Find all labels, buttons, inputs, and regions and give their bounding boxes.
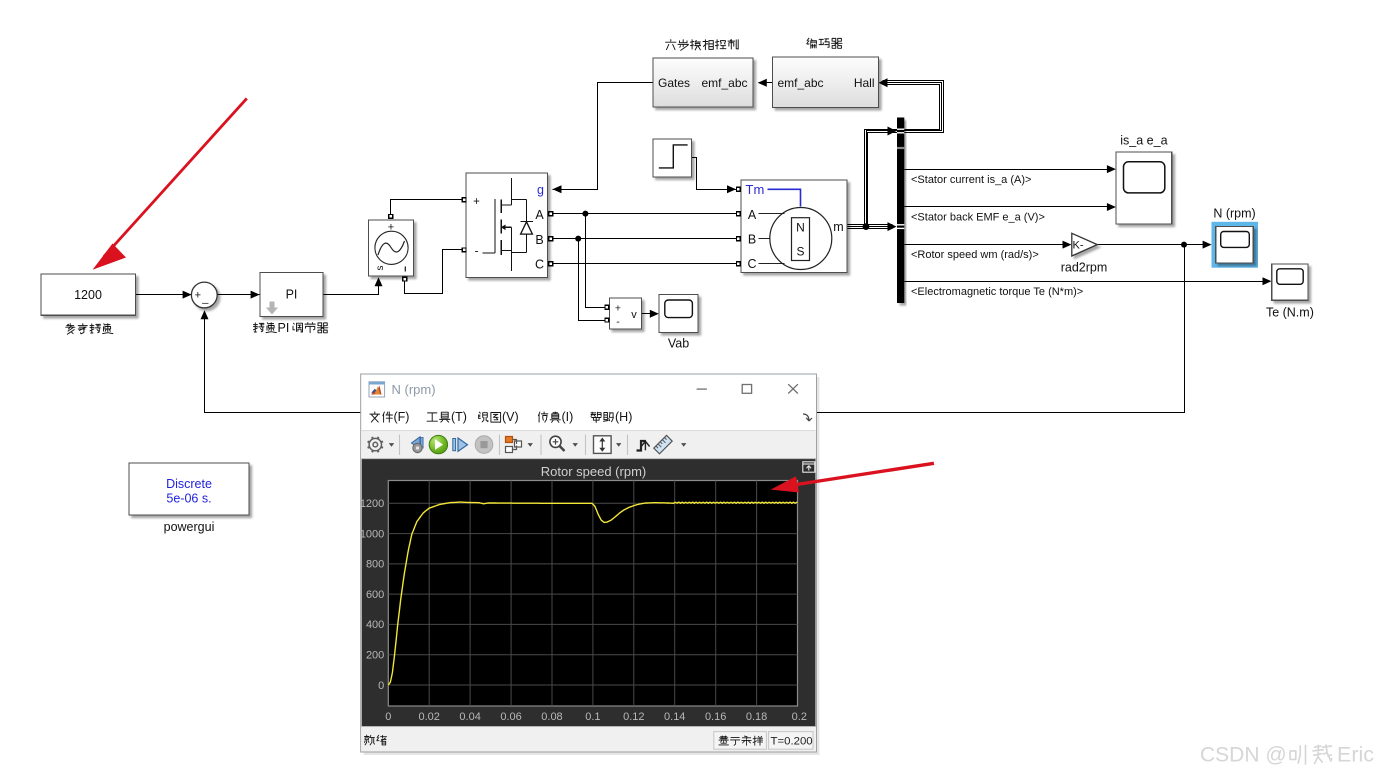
subsystem 六步换相控制 bbox=[653, 58, 753, 107]
bus wire motor m to bus selector bbox=[847, 228, 893, 230]
svg-text:0.02: 0.02 bbox=[419, 711, 440, 723]
svg-text:600: 600 bbox=[366, 589, 384, 601]
svg-text:<Stator back EMF e_a (V)>: <Stator back EMF e_a (V)> bbox=[911, 212, 1045, 224]
wire stator current to scope bbox=[905, 169, 1113, 171]
svg-text:<Rotor speed wm (rad/s)>: <Rotor speed wm (rad/s)> bbox=[911, 249, 1039, 261]
svg-text:+: + bbox=[615, 303, 621, 315]
svg-text:<Stator current is_a (A)>: <Stator current is_a (A)> bbox=[911, 174, 1031, 186]
status bar bbox=[361, 727, 816, 752]
motor circle bbox=[770, 208, 832, 270]
svg-text:A: A bbox=[748, 208, 757, 222]
converter - port bbox=[462, 248, 466, 252]
svg-text:g: g bbox=[537, 183, 544, 197]
wire stator back EMF to scope bbox=[905, 206, 1113, 208]
wire gain to N scope bbox=[1098, 244, 1209, 246]
svg-text:Vab: Vab bbox=[668, 337, 689, 351]
menu bar bbox=[370, 410, 410, 424]
junction dot A bbox=[582, 211, 588, 217]
svg-text:PI: PI bbox=[286, 287, 298, 301]
toolbar step-back icon bbox=[412, 437, 421, 449]
toolbar gear icon bbox=[369, 438, 381, 450]
svg-text:<Electromagnetic torque Te (N*: <Electromagnetic torque Te (N*m)> bbox=[911, 286, 1083, 298]
svg-text:0: 0 bbox=[385, 711, 391, 723]
svg-text:powergui: powergui bbox=[164, 520, 215, 534]
wire phase C bbox=[554, 263, 737, 265]
svg-text:1200: 1200 bbox=[74, 288, 102, 302]
toolbar trigger icon bbox=[637, 441, 647, 451]
wire feedback rotor-speed to sum bbox=[205, 245, 1185, 413]
toolbar autoscale icon bbox=[594, 436, 612, 454]
minimize button bbox=[697, 388, 707, 390]
wire converter- to source- bbox=[405, 250, 462, 294]
toolbar stop icon bbox=[475, 436, 493, 454]
svg-text:emf_abc: emf_abc bbox=[701, 76, 747, 90]
svg-text:rad2rpm: rad2rpm bbox=[1061, 261, 1108, 275]
label 六步换相控制 bbox=[666, 40, 739, 51]
constant block 1200 bbox=[41, 274, 136, 315]
svg-text:PI: PI bbox=[278, 321, 290, 335]
PI controller block bbox=[260, 273, 323, 317]
watermark CSDN bbox=[1200, 743, 1374, 767]
toolbar step-forward icon bbox=[453, 439, 456, 451]
svg-text:800: 800 bbox=[366, 559, 384, 571]
plot grid bbox=[388, 481, 797, 707]
junction dot m bbox=[863, 223, 870, 230]
wire step to Tm bbox=[692, 158, 737, 190]
svg-text:emf_abc: emf_abc bbox=[778, 76, 824, 90]
source top port bbox=[389, 215, 393, 219]
svg-text:1000: 1000 bbox=[360, 528, 384, 540]
svg-text:N (rpm): N (rpm) bbox=[392, 382, 436, 397]
svg-text:0.18: 0.18 bbox=[746, 711, 767, 723]
motor stub A bbox=[759, 213, 785, 215]
wire phase A bbox=[554, 213, 737, 215]
matlab icon bbox=[369, 382, 385, 397]
svg-text:s: s bbox=[375, 266, 386, 271]
svg-text:+: + bbox=[473, 196, 480, 208]
powergui block bbox=[129, 463, 249, 515]
svg-text:B: B bbox=[535, 233, 543, 247]
svg-text:(I): (I) bbox=[562, 410, 574, 424]
svg-text:200: 200 bbox=[366, 650, 384, 662]
svg-text:-: - bbox=[475, 246, 479, 258]
wire encoder emf_abc to Gates bbox=[759, 82, 773, 84]
svg-text:0.1: 0.1 bbox=[585, 711, 600, 723]
magnet bbox=[792, 218, 810, 261]
svg-text:v: v bbox=[631, 309, 637, 321]
scope N rpm bbox=[1216, 226, 1254, 263]
scope window N (rpm) bbox=[360, 374, 820, 755]
svg-text:T=0.200: T=0.200 bbox=[771, 735, 813, 747]
toolbar config icon bbox=[506, 437, 522, 453]
plot axes area bbox=[388, 481, 797, 707]
Tm blue wire bbox=[768, 189, 801, 206]
svg-text:Tm: Tm bbox=[746, 182, 765, 197]
svg-text:A: A bbox=[535, 208, 544, 222]
vmeas + port bbox=[605, 305, 609, 309]
svg-text:Hall: Hall bbox=[854, 76, 875, 90]
wire rotor speed to gain bbox=[905, 244, 1069, 246]
wire sum to PI bbox=[218, 294, 261, 296]
svg-text:B: B bbox=[748, 233, 756, 247]
motor B port bbox=[737, 237, 741, 241]
svg-text:0.14: 0.14 bbox=[664, 711, 685, 723]
svg-text:0.2: 0.2 bbox=[792, 711, 807, 723]
bus selector port marks bbox=[897, 129, 904, 228]
junction dot rotor speed bbox=[1181, 242, 1187, 248]
toolbar zoom icon bbox=[550, 436, 561, 447]
svg-text:Gates: Gates bbox=[658, 76, 690, 90]
red arrow 2 bbox=[790, 463, 934, 485]
PI variant badge bbox=[266, 302, 278, 315]
toolbar play icon bbox=[429, 435, 447, 453]
svg-text:0.08: 0.08 bbox=[541, 711, 562, 723]
wire source+ to converter+ bbox=[391, 200, 462, 215]
junction dot B bbox=[575, 236, 581, 242]
close button bbox=[788, 384, 798, 393]
svg-text:(F): (F) bbox=[394, 410, 410, 424]
status 基于采样 bbox=[719, 736, 763, 745]
svg-text:Discrete: Discrete bbox=[166, 477, 212, 491]
sum block bbox=[191, 282, 217, 308]
mosfet + diode icon bbox=[483, 178, 533, 271]
vmeas - port bbox=[605, 318, 609, 322]
svg-text:Rotor speed (rpm): Rotor speed (rpm) bbox=[541, 464, 646, 479]
wire Vmeas to Vab scope bbox=[642, 313, 655, 315]
step block bbox=[653, 139, 692, 177]
svg-text:m: m bbox=[833, 220, 843, 234]
scope plot backdrop bbox=[362, 459, 816, 726]
svg-text:(V): (V) bbox=[502, 410, 519, 424]
motor stub B bbox=[759, 238, 771, 240]
toolbar bbox=[361, 431, 816, 458]
motor Tm port bbox=[737, 187, 741, 191]
toolbar ruler icon bbox=[654, 435, 672, 453]
converter C port bbox=[549, 262, 553, 266]
status 就绪 bbox=[365, 735, 387, 745]
converter B port bbox=[549, 237, 553, 241]
subsystem 编码器 bbox=[773, 57, 879, 108]
scope is_a e_a bbox=[1116, 152, 1172, 224]
svg-text:0.04: 0.04 bbox=[459, 711, 480, 723]
PMSM motor block bbox=[741, 180, 847, 273]
svg-text:N (rpm): N (rpm) bbox=[1213, 207, 1255, 221]
svg-text:(T): (T) bbox=[451, 410, 467, 424]
svg-text:(H): (H) bbox=[615, 410, 632, 424]
svg-text:0.16: 0.16 bbox=[705, 711, 726, 723]
wire torque to Te scope bbox=[905, 281, 1269, 283]
gain rad2rpm bbox=[1072, 233, 1098, 256]
converter universal bridge block bbox=[466, 173, 548, 278]
svg-text:400: 400 bbox=[366, 619, 384, 631]
bus wire branch to bus selector top and Hall bbox=[868, 81, 944, 227]
converter + port bbox=[462, 198, 466, 202]
svg-text:N: N bbox=[796, 221, 805, 235]
wire PI to source s input bbox=[323, 279, 379, 295]
svg-text:0.06: 0.06 bbox=[500, 711, 521, 723]
Vab scope block bbox=[659, 295, 698, 333]
scope Te bbox=[1272, 264, 1308, 300]
svg-text:Te (N.m): Te (N.m) bbox=[1266, 306, 1314, 320]
motor C port bbox=[737, 262, 741, 266]
svg-text:S: S bbox=[796, 245, 804, 259]
N rpm scope selection highlight bbox=[1212, 222, 1259, 268]
svg-text:0.12: 0.12 bbox=[623, 711, 644, 723]
label 转速PI调节器 bbox=[254, 321, 328, 335]
controlled voltage source bbox=[369, 220, 414, 276]
svg-text:+: + bbox=[195, 290, 201, 302]
svg-text:-: - bbox=[616, 316, 620, 328]
svg-text:1200: 1200 bbox=[360, 498, 384, 510]
svg-text:_: _ bbox=[201, 293, 209, 305]
motor A port bbox=[737, 212, 741, 216]
converter A port bbox=[549, 212, 553, 216]
undock icon bbox=[803, 462, 815, 472]
svg-text:Eric: Eric bbox=[1337, 743, 1374, 767]
svg-text:C: C bbox=[535, 258, 544, 272]
sine glyph bbox=[378, 241, 405, 255]
label 参考转速 bbox=[66, 324, 113, 335]
svg-text:5e-06 s.: 5e-06 s. bbox=[166, 492, 211, 506]
label 编码器 bbox=[807, 38, 842, 48]
svg-text:0: 0 bbox=[378, 680, 384, 692]
svg-text:CSDN @: CSDN @ bbox=[1200, 744, 1287, 767]
source bottom port bbox=[403, 277, 407, 281]
rotor speed curve bbox=[388, 502, 797, 685]
svg-text:C: C bbox=[747, 257, 756, 271]
svg-text:K-: K- bbox=[1073, 240, 1084, 252]
voltage measurement block bbox=[610, 298, 642, 329]
wire A junction to Vmeas+ bbox=[586, 214, 605, 308]
wire 1200 to sum bbox=[136, 294, 193, 296]
arrowhead feedback into sum bbox=[201, 310, 209, 319]
dock arrow bbox=[803, 414, 812, 421]
red arrow 1 bbox=[104, 98, 247, 256]
bus selector bar bbox=[897, 118, 904, 304]
wire B junction to Vmeas- bbox=[579, 239, 605, 321]
wire phase B bbox=[554, 238, 737, 240]
motor stub C bbox=[759, 263, 785, 265]
svg-text:is_a e_a: is_a e_a bbox=[1120, 134, 1167, 148]
wire Gates to converter g bbox=[553, 83, 653, 190]
maximize button bbox=[742, 385, 751, 394]
